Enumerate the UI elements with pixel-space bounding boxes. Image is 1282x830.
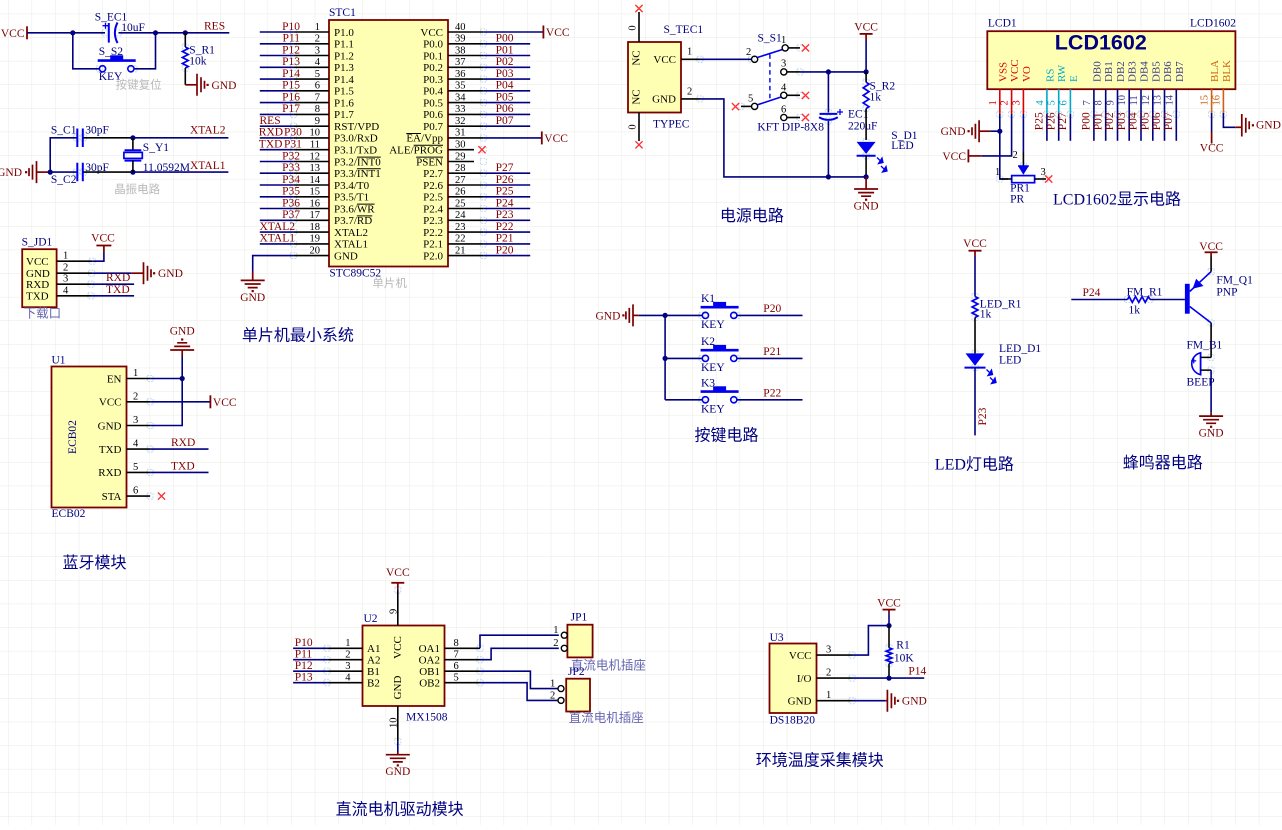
pin name OA1 (U2 pin 8) <box>419 643 440 655</box>
svg-text:GND: GND <box>854 201 879 213</box>
ground GND (crystal) <box>0 161 50 183</box>
node junction XTAL1/crystal <box>130 170 135 175</box>
svg-text:PR: PR <box>1010 194 1024 206</box>
svg-text:DS18B20: DS18B20 <box>770 715 816 727</box>
svg-text:28: 28 <box>455 163 466 174</box>
switch S_S1 throw pin 1 <box>781 35 800 51</box>
svg-text:4: 4 <box>133 439 139 450</box>
LCD1 body <box>987 18 1236 90</box>
pin 6 wire (U1) <box>127 495 151 497</box>
node junction R1 top <box>886 623 891 628</box>
wire collector to buzzer <box>1210 323 1212 358</box>
svg-text:单片机最小系统: 单片机最小系统 <box>242 327 354 345</box>
svg-text:VCC: VCC <box>1009 59 1021 82</box>
pin 6 number (STC1) <box>315 81 320 92</box>
pin 16 wire (LCD1) <box>1223 113 1241 127</box>
net label P27 (LCD1 pin 6) <box>1057 112 1069 130</box>
pin 1 number (U3) <box>826 690 831 701</box>
svg-text:P0.0: P0.0 <box>423 39 443 51</box>
section label 直流电机驱动模块 <box>336 801 464 819</box>
ground GND (U3) <box>885 690 926 712</box>
svg-text:P11: P11 <box>295 649 313 661</box>
net label P01 (STC1 pin 38) <box>496 44 514 56</box>
pin 4 stub (LCD1) <box>1046 89 1048 114</box>
pin 1 number (U1) <box>133 368 138 379</box>
svg-text:P2.2: P2.2 <box>423 227 443 239</box>
pin 7 wire (STC1 left) <box>260 102 329 104</box>
pin name VO (LCD1 pin 3) <box>1021 66 1033 82</box>
wire S_C1 branch <box>50 138 76 172</box>
net label P25 (LCD1 pin 4) <box>1034 112 1046 130</box>
svg-text:VSS: VSS <box>997 62 1009 82</box>
svg-text:单片机: 单片机 <box>372 276 407 290</box>
svg-text:P02: P02 <box>496 56 514 68</box>
pin 10 wire (U2) <box>388 706 399 752</box>
pin name P3.6/WR (STC1 pin 16) <box>334 203 375 215</box>
svg-text:P2.1: P2.1 <box>423 239 443 251</box>
power port VCC (STC1 pin 31) <box>542 131 568 145</box>
svg-text:P06: P06 <box>496 103 514 115</box>
svg-text:P10: P10 <box>282 21 300 33</box>
net label P20 <box>763 303 781 315</box>
pin 4 number (S_JD1) <box>63 285 69 296</box>
pin name P0.6 (STC1 pin 33) <box>423 109 443 121</box>
node junction R1 bottom <box>886 676 891 681</box>
svg-text:EA/Vpp: EA/Vpp <box>406 133 443 145</box>
svg-text:P0.6: P0.6 <box>423 109 443 121</box>
pin 1 wire (U2) <box>293 647 362 649</box>
power port VCC (U1) <box>210 395 236 409</box>
svg-text:1k: 1k <box>1129 305 1141 317</box>
node junction GND bus/EC1 <box>826 174 831 179</box>
svg-text:1: 1 <box>133 368 138 379</box>
svg-text:P2.5: P2.5 <box>423 192 443 204</box>
pin 10 wire (LCD1) <box>1128 114 1130 141</box>
buzzer FM_B1 <box>1187 339 1223 388</box>
svg-text:11: 11 <box>1129 95 1140 105</box>
pin 16 wire (STC1 left) <box>260 208 329 210</box>
svg-text:P01: P01 <box>1092 112 1104 130</box>
svg-text:B2: B2 <box>367 678 380 690</box>
pin name DB3 (LCD1 pin 10) <box>1127 61 1139 82</box>
net label P04 (STC1 pin 35) <box>496 80 514 92</box>
key switch K2 <box>701 336 739 374</box>
pin 3 wire (LCD1) <box>1022 114 1024 166</box>
pin name EN (U1 pin 1) <box>107 373 122 385</box>
ground GND (keys) <box>595 304 638 326</box>
pin 2 number (S_JD1) <box>63 263 68 274</box>
pin 3 number (U2) <box>345 661 350 672</box>
net label P00 (LCD1 pin 7) <box>1081 112 1093 130</box>
pin 9 wire (STC1 left) <box>260 125 329 127</box>
svg-text:2: 2 <box>1000 100 1011 105</box>
svg-text:E: E <box>1068 75 1080 82</box>
svg-text:33: 33 <box>455 104 466 115</box>
svg-text:5: 5 <box>133 462 138 473</box>
pin name VSS (LCD1 pin 1) <box>997 62 1009 82</box>
pin 28 number (STC1) <box>455 163 466 174</box>
pin 6 stub (LCD1) <box>1069 89 1071 114</box>
ground GND (U2) <box>385 752 410 778</box>
pin name GND (U1 pin 3) <box>98 420 122 432</box>
svg-text:15: 15 <box>1200 95 1211 106</box>
pin name P1.1 (STC1 pin 2) <box>334 39 354 51</box>
pin 4 wire (U1) <box>127 448 209 450</box>
svg-text:P2.4: P2.4 <box>423 203 443 215</box>
pin name P1.7 (STC1 pin 8) <box>334 109 354 121</box>
pin 9 stub (LCD1) <box>1117 89 1119 114</box>
pin 2 wire (U3) <box>817 677 925 679</box>
svg-text:NC: NC <box>631 89 643 104</box>
pin 6 wire (STC1 left) <box>260 90 329 92</box>
svg-text:22: 22 <box>455 234 466 245</box>
pin 14 number (STC1) <box>310 175 321 186</box>
svg-text:8: 8 <box>1094 100 1105 105</box>
pin 1 wire (S_JD1) <box>57 253 104 262</box>
pin 11 stub (LCD1) <box>1140 89 1142 114</box>
svg-text:GND: GND <box>334 250 358 262</box>
wire key K1 right <box>737 314 803 316</box>
svg-text:RXD: RXD <box>26 279 49 291</box>
svg-text:K3: K3 <box>701 378 715 390</box>
net label P05 (STC1 pin 34) <box>496 91 514 103</box>
svg-text:1k: 1k <box>980 309 992 321</box>
pin 39 wire (STC1 right) <box>448 43 530 45</box>
key switch S_S2 <box>98 46 136 83</box>
wire U1 gnd riser <box>181 350 183 379</box>
resistor R1 <box>886 626 914 679</box>
svg-text:2: 2 <box>550 691 555 702</box>
svg-text:16: 16 <box>310 198 321 209</box>
svg-text:KEY: KEY <box>701 319 725 331</box>
pin name I/O (U3) <box>797 673 812 685</box>
pin name P2.4 (STC1 pin 25) <box>423 203 443 215</box>
pin 1 stub (LCD1) <box>999 89 1001 114</box>
pin name VCC (STC1 pin 40) <box>420 27 443 39</box>
pin name ALE/PROG (STC1 pin 30) <box>389 145 443 157</box>
svg-text:0: 0 <box>628 124 639 129</box>
net label RXD (U1) <box>171 437 195 449</box>
svg-text:NC: NC <box>631 50 643 65</box>
svg-text:6: 6 <box>133 486 138 497</box>
net label P02 (STC1 pin 37) <box>496 56 514 68</box>
wire OA2 to JP1 pin2 <box>480 648 559 659</box>
pin name P2.1 (STC1 pin 22) <box>423 239 443 251</box>
svg-text:GND: GND <box>652 94 676 106</box>
svg-text:LCD1602显示电路: LCD1602显示电路 <box>1053 191 1181 209</box>
svg-text:P11: P11 <box>283 33 301 45</box>
resistor S_R2 <box>863 72 895 140</box>
section label LED灯电路 <box>935 456 1014 474</box>
pin name BLA (LCD1 pin 15) <box>1209 60 1221 82</box>
section label LCD1602显示电路 <box>1053 191 1181 209</box>
pin 2 wire (S_TEC1) <box>681 87 700 99</box>
svg-text:P25: P25 <box>496 186 514 198</box>
svg-text:按键电路: 按键电路 <box>695 427 759 445</box>
svg-text:7: 7 <box>315 92 320 103</box>
pin 6 number (LCD1) <box>1058 100 1069 105</box>
pin name GND (S_TEC1) <box>652 94 676 106</box>
pin 25 wire (STC1 right) <box>448 208 530 210</box>
svg-text:OA1: OA1 <box>419 643 440 655</box>
pin 8 number (U2) <box>454 638 459 649</box>
pin 5 number (U2) <box>454 673 459 684</box>
net label P13 (STC1 pin 4) <box>282 56 300 68</box>
pin 23 wire (STC1 right) <box>448 231 530 233</box>
svg-text:GND: GND <box>0 167 22 179</box>
svg-text:P31: P31 <box>284 139 302 151</box>
svg-text:2: 2 <box>553 638 558 649</box>
power port VCC (U2) <box>386 567 410 589</box>
capacitor S_EC1 <box>95 12 145 44</box>
pin 30 wire (STC1 right) <box>448 149 474 151</box>
sensor U3 body <box>770 632 817 727</box>
pin name A1 (U2 pin 1) <box>367 643 380 655</box>
pin 13 wire (STC1 left) <box>260 172 329 174</box>
pin name DB5 (LCD1 pin 12) <box>1150 61 1162 82</box>
svg-text:K2: K2 <box>701 336 715 348</box>
net label RXD (S_JD1) <box>106 272 130 284</box>
svg-text:14: 14 <box>310 175 321 186</box>
section label 电源电路 <box>720 207 784 225</box>
pin 2 wire (S_JD1) <box>57 272 132 274</box>
power port VCC (reset circuit) <box>1 26 27 40</box>
net label P24 <box>1083 287 1101 299</box>
svg-text:3: 3 <box>345 661 350 672</box>
svg-text:13: 13 <box>1153 95 1164 106</box>
svg-text:P3.2/INT0: P3.2/INT0 <box>334 156 381 168</box>
pin 12 wire (LCD1) <box>1152 114 1154 141</box>
pin 3 wire (U2) <box>293 670 362 672</box>
pin 14 number (LCD1) <box>1164 94 1175 105</box>
JP1 pin 1 <box>553 625 567 638</box>
resistor S_R1 <box>182 33 215 85</box>
caption 按键复位 <box>116 77 162 91</box>
node junction keys row1 <box>663 313 668 318</box>
svg-text:TYPEC: TYPEC <box>653 119 690 131</box>
svg-text:S_JD1: S_JD1 <box>22 237 53 249</box>
svg-text:P02: P02 <box>1104 112 1116 130</box>
ground GND (buzzer) <box>1199 413 1224 440</box>
switch S_S1 common pole pin 2 <box>746 47 758 62</box>
svg-text:LCD1: LCD1 <box>988 18 1017 30</box>
JP2 pin 1 <box>550 679 564 692</box>
svg-text:VCC: VCC <box>546 27 570 39</box>
net label P22 <box>763 388 781 400</box>
pin 13 stub (LCD1) <box>1164 89 1166 114</box>
ground GND (STC1) <box>240 271 265 304</box>
pin name P3.2/INT0 (STC1 pin 12) <box>334 156 381 168</box>
pin name TXD (U1 pin 4) <box>99 444 122 456</box>
svg-text:RW: RW <box>1056 64 1068 82</box>
pin 21 number (STC1) <box>455 245 466 256</box>
net label P17 (STC1 pin 8) <box>282 103 300 115</box>
pin 6 wire (LCD1) <box>1069 114 1071 141</box>
pin 34 number (STC1) <box>455 92 466 103</box>
svg-text:蜂鸣器电路: 蜂鸣器电路 <box>1123 454 1203 472</box>
svg-text:5: 5 <box>1047 100 1058 105</box>
svg-text:P00: P00 <box>496 33 514 45</box>
pin 13 wire (LCD1) <box>1164 114 1166 141</box>
svg-text:VCC: VCC <box>386 567 410 579</box>
svg-text:VCC: VCC <box>877 598 901 610</box>
net label P14 (STC1 pin 5) <box>282 68 300 80</box>
svg-text:P03: P03 <box>1116 112 1128 130</box>
svg-text:10K: 10K <box>894 653 915 665</box>
pin name PSEN (STC1 pin 29) <box>416 156 443 168</box>
svg-text:7: 7 <box>1082 100 1093 105</box>
pin name B2 (U2 pin 4) <box>367 678 380 690</box>
svg-text:ECB02: ECB02 <box>67 420 79 454</box>
svg-text:VCC: VCC <box>1200 143 1224 155</box>
pin 5 wire (U1) <box>127 471 209 473</box>
svg-text:RXD: RXD <box>106 272 130 284</box>
net label P03 (STC1 pin 36) <box>496 68 514 80</box>
svg-text:P3.4/T0: P3.4/T0 <box>334 180 370 192</box>
resistor FM_R1 <box>1127 286 1163 316</box>
key switch K1 <box>701 293 739 331</box>
svg-text:2: 2 <box>826 667 831 678</box>
connector JP1 body <box>567 612 592 658</box>
svg-text:P33: P33 <box>282 162 300 174</box>
svg-text:S_C1: S_C1 <box>51 124 77 136</box>
svg-text:JP1: JP1 <box>571 612 588 624</box>
pin name B1 (U2 pin 3) <box>367 666 380 678</box>
svg-text:XTAL2: XTAL2 <box>190 125 226 137</box>
ground GND (LCD left) <box>941 120 991 142</box>
svg-text:24: 24 <box>455 210 466 221</box>
svg-text:2: 2 <box>133 391 138 402</box>
svg-text:37: 37 <box>455 57 466 68</box>
pin 35 wire (STC1 right) <box>448 90 530 92</box>
svg-text:P36: P36 <box>282 197 300 209</box>
svg-text:P13: P13 <box>295 672 313 684</box>
svg-text:3: 3 <box>133 415 138 426</box>
svg-text:1: 1 <box>345 638 350 649</box>
svg-text:VCC: VCC <box>789 650 812 662</box>
pin 22 wire (STC1 right) <box>448 243 530 245</box>
pin 24 number (STC1) <box>455 210 466 221</box>
pin 5 number (U1) <box>133 462 138 473</box>
svg-text:P24: P24 <box>1083 287 1101 299</box>
potentiometer PR1 <box>995 150 1046 206</box>
svg-text:P2.3: P2.3 <box>423 215 443 227</box>
pin 10 wire (STC1 left) <box>260 137 329 139</box>
svg-text:R1: R1 <box>896 640 910 652</box>
svg-text:U2: U2 <box>364 613 378 625</box>
wire pin3 to VCC rail <box>800 71 866 73</box>
pin 3 wire (S_JD1) <box>57 283 135 285</box>
svg-text:P35: P35 <box>282 186 300 198</box>
pin 7 wire (LCD1) <box>1093 114 1095 141</box>
svg-text:环境温度采集模块: 环境温度采集模块 <box>756 751 884 770</box>
pin 32 number (STC1) <box>455 116 466 127</box>
no-ERC marker STC1 pin30 <box>478 146 485 153</box>
svg-text:1: 1 <box>687 47 692 58</box>
net label P26 (LCD1 pin 5) <box>1045 112 1057 130</box>
svg-text:30: 30 <box>455 140 466 151</box>
svg-text:DB1: DB1 <box>1103 61 1115 82</box>
svg-text:6: 6 <box>454 661 459 672</box>
svg-text:1: 1 <box>553 625 558 636</box>
switch S_S1 pin 5 <box>741 94 758 110</box>
pin 5 wire (STC1 left) <box>260 78 329 80</box>
wire LED_R1 to LED_D1 <box>974 318 976 354</box>
svg-text:P20: P20 <box>763 303 781 315</box>
pin 4 wire (U2) <box>293 682 362 684</box>
pin 30 number (STC1) <box>455 140 466 151</box>
pin 25 number (STC1) <box>455 198 466 209</box>
pin 7 stub (LCD1) <box>1093 89 1095 114</box>
pin 4 number (U2) <box>345 673 351 684</box>
svg-text:3: 3 <box>1041 167 1046 178</box>
svg-text:P16: P16 <box>282 91 300 103</box>
pin name EA/Vpp (STC1 pin 31) <box>406 133 443 145</box>
pin name DB2 (LCD1 pin 9) <box>1115 61 1127 82</box>
svg-text:P06: P06 <box>1151 112 1163 130</box>
pin 6 number (U1) <box>133 486 138 497</box>
pin name VCC (U3) <box>789 650 812 662</box>
svg-text:11.0592M: 11.0592M <box>143 162 190 174</box>
pin 3 number (U3) <box>826 644 831 655</box>
switch S_S1 lever 2 <box>758 97 782 105</box>
svg-text:P00: P00 <box>1081 112 1093 130</box>
svg-text:29: 29 <box>455 151 466 162</box>
pin 11 number (STC1) <box>310 140 320 151</box>
svg-text:GND: GND <box>595 311 620 323</box>
pin 3 number (S_JD1) <box>63 274 68 285</box>
svg-text:VCC: VCC <box>420 27 443 39</box>
pin name P3.4/T0 (STC1 pin 14) <box>334 180 370 192</box>
svg-text:ECB02: ECB02 <box>52 508 86 520</box>
net label P12 (STC1 pin 3) <box>282 44 300 56</box>
pin 5 wire (U2) <box>445 682 481 684</box>
pin name RS (LCD1 pin 4) <box>1044 69 1056 82</box>
svg-text:1: 1 <box>550 679 555 690</box>
svg-text:P0.3: P0.3 <box>423 74 443 86</box>
pin name P0.4 (STC1 pin 35) <box>423 86 443 98</box>
pin 2 wire (STC1 left) <box>260 43 329 45</box>
pin 15 number (LCD1) <box>1200 95 1211 106</box>
svg-text:4: 4 <box>63 285 69 296</box>
svg-text:220uF: 220uF <box>848 121 877 133</box>
svg-text:GND: GND <box>170 326 195 338</box>
switch S_S1 lever <box>757 50 782 58</box>
ground GND (S_JD1) <box>131 262 183 284</box>
pin 38 number (STC1) <box>455 45 466 56</box>
svg-text:7: 7 <box>454 650 459 661</box>
section label 蓝牙模块 <box>63 554 127 572</box>
pin 12 stub (LCD1) <box>1152 89 1154 114</box>
pin 8 wire (STC1 left) <box>260 113 329 115</box>
pin 4 wire (S_JD1) <box>57 295 135 297</box>
svg-text:27: 27 <box>455 175 466 186</box>
pin 39 number (STC1) <box>455 34 466 45</box>
svg-text:OB2: OB2 <box>419 678 440 690</box>
svg-text:P03: P03 <box>496 68 514 80</box>
net label XTAL2 (STC1 pin 18) <box>260 221 296 233</box>
svg-text:2: 2 <box>746 47 751 58</box>
pin 2 number (STC1) <box>315 34 320 45</box>
svg-text:P10: P10 <box>295 637 313 649</box>
svg-text:P1.7: P1.7 <box>334 109 354 121</box>
svg-text:30pF: 30pF <box>85 124 109 136</box>
caption 单片机 <box>372 276 407 290</box>
ground GND (U1) <box>170 326 195 351</box>
net label XTAL2 <box>190 125 226 137</box>
svg-text:P3.6/WR: P3.6/WR <box>334 203 375 215</box>
svg-text:4: 4 <box>1035 100 1046 106</box>
